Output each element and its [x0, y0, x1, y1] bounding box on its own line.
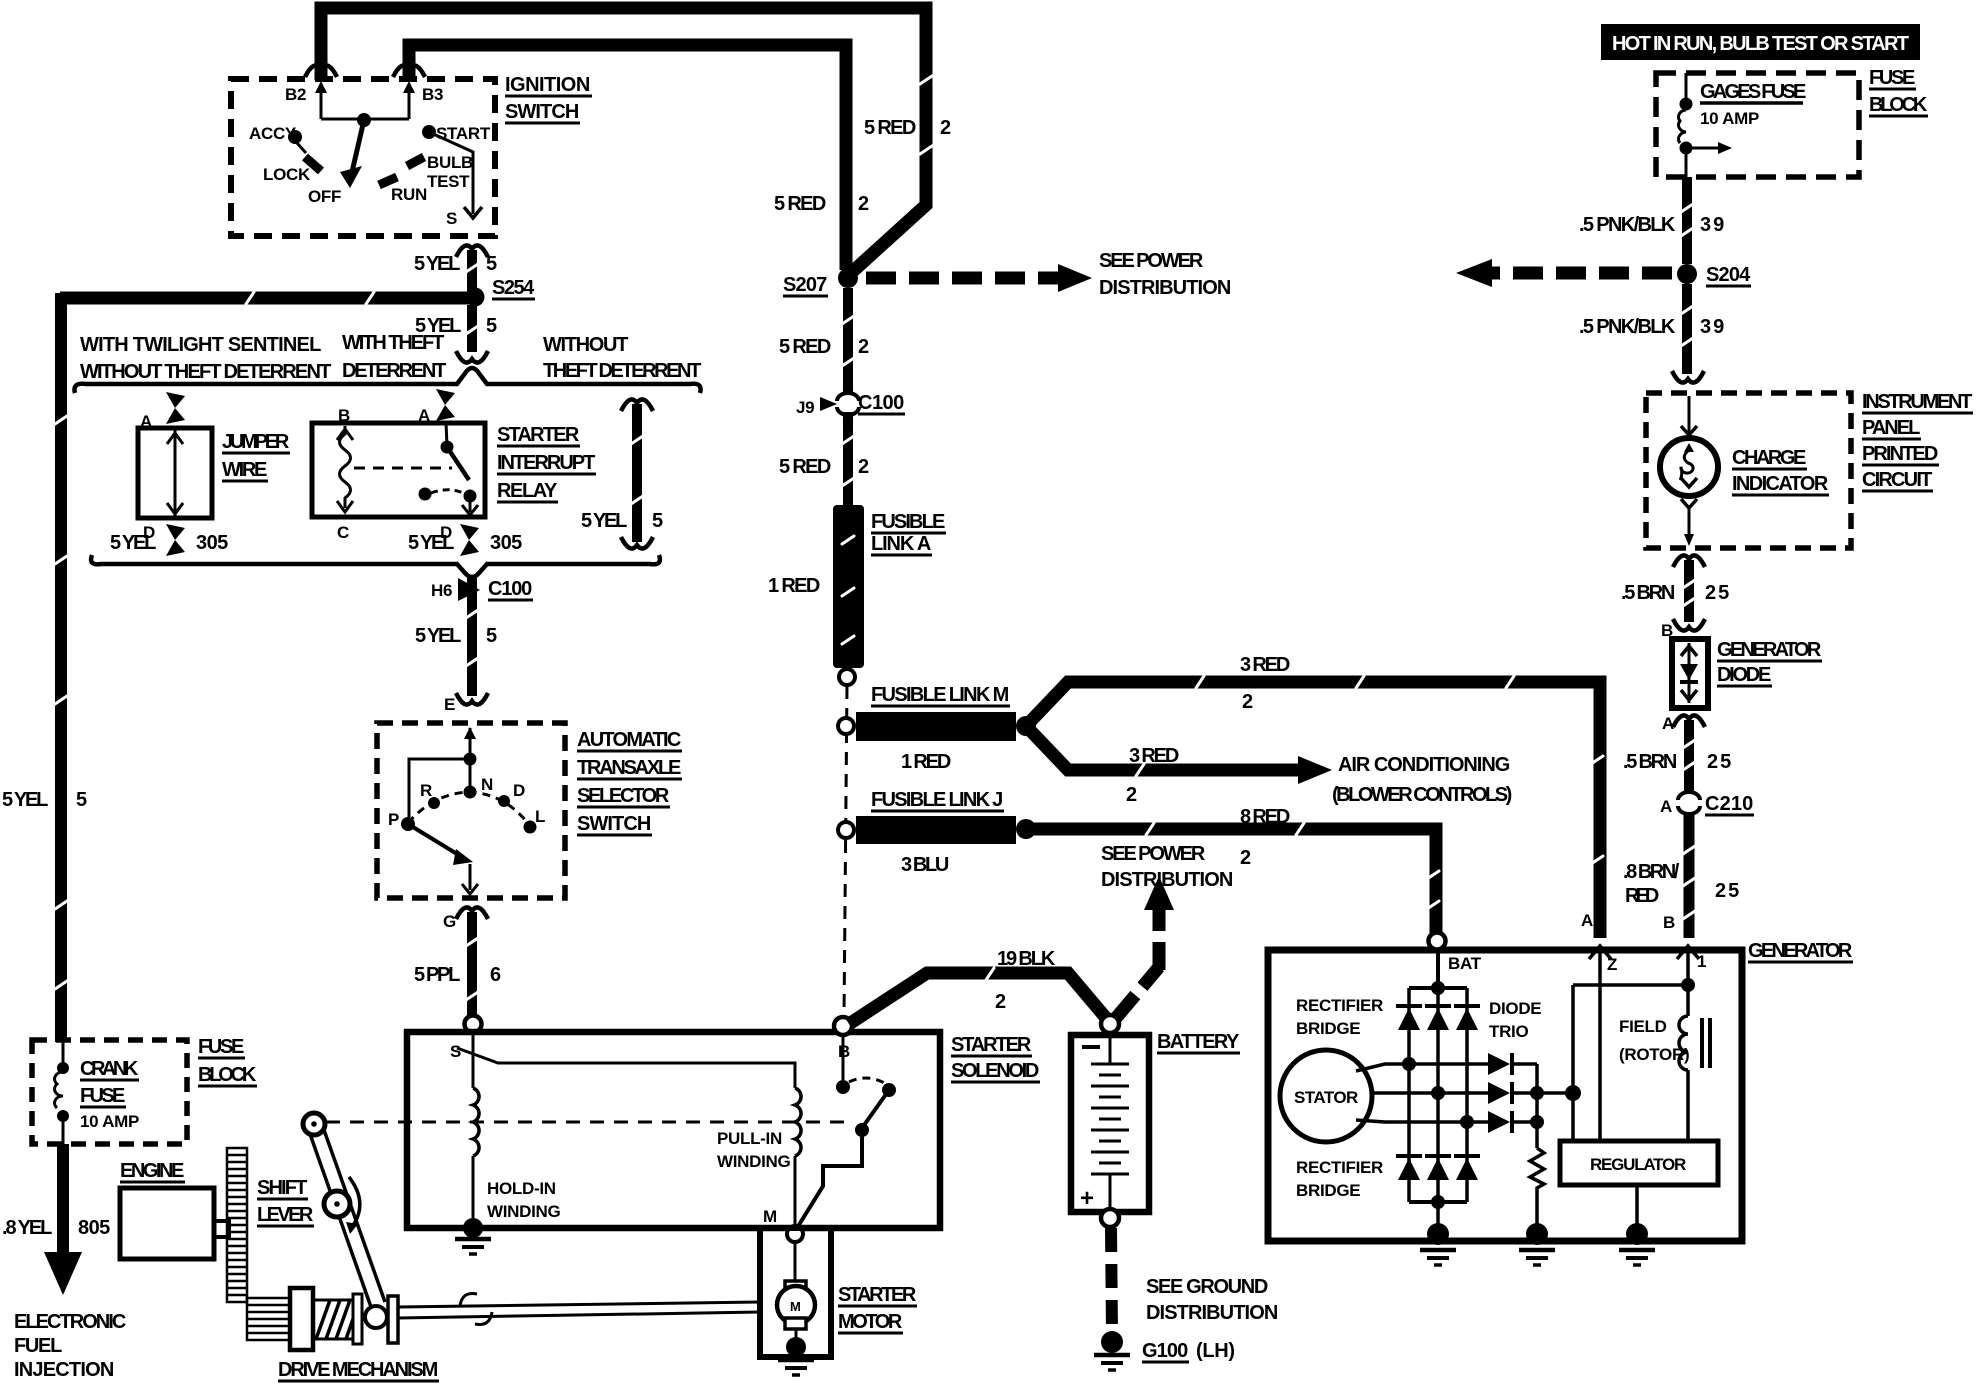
crank fuse element: [62, 1040, 65, 1064]
shift lever pivot: [324, 1191, 350, 1217]
svg-text:MOTOR: MOTOR: [838, 1311, 903, 1333]
svg-text:WINDING: WINDING: [717, 1152, 791, 1171]
wire 3 RED 2 to air conditioning: [1026, 726, 1298, 770]
wire C210 to generator (.8 BRN/RED 25): [1684, 813, 1695, 938]
svg-text:ENGINE: ENGINE: [120, 1160, 184, 1182]
Z terminal: [1589, 946, 1611, 959]
connector chevron at B2: [305, 65, 337, 77]
svg-text:BRIDGE: BRIDGE: [1296, 1019, 1360, 1038]
terminal below link A: [839, 669, 855, 685]
svg-text:REGULATOR: REGULATOR: [1590, 1155, 1686, 1174]
pivot rotation arrow: [349, 1177, 360, 1227]
svg-text:HOT IN RUN, BULB TEST OR START: HOT IN RUN, BULB TEST OR START: [1612, 33, 1909, 55]
dashed arrow left from S204: [1490, 267, 1672, 280]
svg-text:S: S: [450, 1042, 461, 1061]
drive rod to starter motor: [398, 1302, 760, 1307]
svg-text:LINK A: LINK A: [871, 533, 931, 555]
svg-text:19 BLK: 19 BLK: [997, 948, 1056, 970]
terminal S circle: [465, 1016, 482, 1033]
svg-text:BATTERY: BATTERY: [1157, 1031, 1240, 1053]
svg-text:FUSIBLE LINK M: FUSIBLE LINK M: [871, 684, 1009, 706]
svg-text:10 AMP: 10 AMP: [80, 1112, 139, 1131]
svg-text:SHIFT: SHIFT: [257, 1177, 307, 1199]
wire S254 horizontal to left edge: [60, 292, 470, 305]
svg-text:SWITCH: SWITCH: [577, 813, 651, 835]
stator: [1280, 1050, 1372, 1142]
svg-text:STARTER: STARTER: [951, 1034, 1032, 1056]
bypass wire without theft deterrent (5 YEL 5): [621, 399, 653, 411]
upper brace: [74, 368, 700, 393]
svg-text:C210: C210: [1705, 793, 1753, 815]
node S254: [466, 288, 485, 307]
wire battery to power dist arrow: [1116, 967, 1159, 1018]
svg-text:WITH THEFT: WITH THEFT: [342, 332, 444, 354]
starter motor housing: [760, 1228, 831, 1357]
svg-text:.8 YEL: .8 YEL: [2, 1217, 52, 1239]
svg-text:5 RED: 5 RED: [779, 336, 831, 358]
rotor arm node: [357, 113, 371, 127]
svg-text:DIODE: DIODE: [1489, 999, 1541, 1018]
svg-text:10 AMP: 10 AMP: [1700, 109, 1759, 128]
svg-text:C100: C100: [858, 392, 904, 414]
contact arc P R N D L: [408, 792, 530, 826]
wire 19 BLK 2 solenoid B to battery: [849, 973, 1106, 1024]
node S207: [838, 268, 858, 288]
wire B2 to top bus to S207 (5 RED 2): [321, 8, 926, 273]
svg-text:SOLENOID: SOLENOID: [951, 1060, 1039, 1082]
svg-text:G: G: [443, 912, 456, 931]
ignition switch box: [231, 79, 495, 236]
svg-text:.5 BRN: .5 BRN: [1623, 751, 1677, 773]
connector chevron at B3: [393, 65, 425, 77]
switch wiper: [408, 824, 462, 857]
hold-in winding: [472, 1035, 475, 1088]
fusible link A: [833, 505, 864, 668]
rectifier diodes top row: [1396, 1006, 1480, 1030]
fuse block box (gages): [1656, 73, 1859, 177]
svg-text:RUN: RUN: [391, 185, 427, 204]
svg-text:SELECTOR: SELECTOR: [577, 785, 670, 807]
svg-text:AIR CONDITIONING: AIR CONDITIONING: [1338, 754, 1510, 776]
svg-text:SEE GROUND: SEE GROUND: [1146, 1276, 1268, 1298]
svg-text:5 YEL: 5 YEL: [581, 510, 627, 532]
svg-text:OFF: OFF: [308, 187, 341, 206]
node in switch: [464, 753, 477, 766]
svg-text:.5 PNK/BLK: .5 PNK/BLK: [1579, 214, 1676, 236]
drive mechanism screw: [313, 1300, 353, 1339]
svg-text:5 YEL: 5 YEL: [414, 253, 460, 275]
svg-text:GENERATOR: GENERATOR: [1748, 940, 1853, 962]
svg-text:5 PPL: 5 PPL: [414, 964, 460, 986]
svg-text:2: 2: [858, 336, 869, 358]
svg-text:A: A: [1662, 714, 1674, 733]
svg-text:8 RED: 8 RED: [1240, 806, 1290, 828]
svg-text:STATOR: STATOR: [1294, 1088, 1358, 1107]
svg-text:2: 2: [858, 193, 869, 215]
rectifier verticals: [1407, 988, 1411, 1202]
wire M to motor: [794, 1242, 797, 1283]
svg-text:2: 2: [1126, 784, 1137, 806]
svg-text:S207: S207: [783, 274, 827, 296]
svg-text:SEE POWER: SEE POWER: [1099, 250, 1204, 272]
svg-text:.5 BRN: .5 BRN: [1621, 582, 1675, 604]
wire left long vertical (5 YEL 5): [55, 293, 67, 1042]
svg-text:TRANSAXLE: TRANSAXLE: [577, 757, 681, 779]
svg-text:WITHOUT THEFT DETERRENT: WITHOUT THEFT DETERRENT: [80, 361, 331, 383]
wire S254 down to brace (5 YEL 5): [467, 305, 477, 352]
svg-text:PANEL: PANEL: [1862, 417, 1920, 439]
switch entry arrow: [469, 728, 472, 758]
jumper wire internal: [174, 430, 177, 516]
svg-text:M: M: [790, 1299, 801, 1314]
drive mechanism bar: [353, 1294, 362, 1344]
svg-text:805: 805: [78, 1217, 110, 1239]
svg-text:5: 5: [486, 625, 497, 647]
wire crank fuse to EFI (.8 YEL 805): [57, 1144, 69, 1254]
svg-text:FUSIBLE LINK J: FUSIBLE LINK J: [871, 789, 1003, 811]
wire 8 RED 2 to generator BAT: [1026, 829, 1436, 933]
svg-text:5 RED: 5 RED: [864, 117, 916, 139]
svg-text:IGNITION: IGNITION: [505, 74, 590, 96]
svg-text:BAT: BAT: [1448, 954, 1482, 973]
svg-text:ELECTRONIC: ELECTRONIC: [14, 1311, 126, 1333]
starter solenoid box: [407, 1032, 940, 1228]
svg-text:STARTER: STARTER: [838, 1284, 917, 1306]
svg-text:BRIDGE: BRIDGE: [1296, 1181, 1360, 1200]
wire G to solenoid S (5 PPL 6): [467, 912, 477, 1016]
svg-text:3 RED: 3 RED: [1129, 745, 1179, 767]
svg-text:5: 5: [486, 253, 497, 275]
svg-text:5 YEL: 5 YEL: [408, 532, 454, 554]
svg-text:HOLD-IN: HOLD-IN: [487, 1179, 556, 1198]
BAT terminal: [1429, 933, 1446, 950]
svg-text:C: C: [337, 523, 349, 542]
solenoid contact: [842, 1036, 845, 1080]
pull-in winding: [795, 1088, 801, 1156]
rectifier bottom bus: [1409, 1200, 1467, 1204]
svg-text:SEE POWER: SEE POWER: [1101, 843, 1206, 865]
svg-text:5 YEL: 5 YEL: [110, 532, 156, 554]
svg-text:+: +: [1080, 1185, 1094, 1212]
svg-text:JUMPER: JUMPER: [222, 431, 290, 453]
svg-text:1 RED: 1 RED: [768, 575, 820, 597]
wire B3 to second bus down to S207 (5 RED 2): [409, 45, 846, 270]
svg-text:FUSE: FUSE: [80, 1085, 125, 1107]
svg-text:M: M: [763, 1207, 777, 1226]
svg-text:J9: J9: [796, 398, 814, 417]
svg-text:WITH TWILIGHT SENTINEL: WITH TWILIGHT SENTINEL: [80, 334, 321, 356]
wire S204 to instrument panel (.5 PNK/BLK 39): [1682, 284, 1692, 374]
rod break curl: [460, 1294, 477, 1307]
regulator: [1560, 1141, 1718, 1185]
svg-text:L: L: [535, 807, 545, 826]
svg-text:Z: Z: [1607, 955, 1617, 974]
wire START to S output: [429, 132, 473, 214]
svg-text:DISTRIBUTION: DISTRIBUTION: [1099, 277, 1231, 299]
svg-text:RELAY: RELAY: [497, 480, 558, 502]
field feed: [1571, 985, 1575, 1141]
svg-text:RED: RED: [1625, 885, 1659, 907]
shift lever top pivot: [303, 1113, 325, 1135]
wire fuse to S204 (.5 PNK/BLK 39): [1682, 177, 1692, 264]
svg-text:305: 305: [196, 532, 228, 554]
svg-text:RECTIFIER: RECTIFIER: [1296, 996, 1383, 1015]
svg-text:FUSE: FUSE: [1869, 67, 1915, 89]
svg-text:.8 BRN/: .8 BRN/: [1623, 861, 1680, 883]
svg-text:INTERRUPT: INTERRUPT: [497, 452, 595, 474]
charge indicator: [1688, 396, 1691, 438]
svg-text:FUSE: FUSE: [198, 1036, 244, 1058]
svg-text:B2: B2: [285, 85, 306, 104]
gages fuse element: [1685, 73, 1688, 100]
dashed wire down to solenoid B: [844, 686, 847, 1016]
svg-text:5 YEL: 5 YEL: [2, 789, 48, 811]
relay coil: [340, 426, 351, 508]
1 terminal: [1677, 946, 1699, 959]
generator grounds: [1436, 1202, 1440, 1228]
svg-text:5 YEL: 5 YEL: [415, 625, 461, 647]
svg-text:R: R: [420, 781, 432, 800]
svg-text:B3: B3: [422, 85, 443, 104]
svg-text:S254: S254: [492, 277, 535, 299]
plunger dashed linkage: [326, 1121, 848, 1124]
automatic transaxle selector switch box: [377, 723, 565, 898]
svg-text:A: A: [1660, 797, 1672, 816]
jumper wire box: [138, 428, 212, 518]
svg-text:3 RED: 3 RED: [1240, 654, 1290, 676]
svg-text:THEFT DETERRENT: THEFT DETERRENT: [543, 360, 701, 382]
svg-text:P: P: [388, 810, 399, 829]
svg-text:(BLOWER CONTROLS): (BLOWER CONTROLS): [1332, 784, 1512, 806]
trio output node: [1535, 1064, 1539, 1148]
wire C100 to fusible link A (5 RED 2): [843, 412, 853, 505]
relay dashed link: [354, 467, 452, 470]
svg-text:2: 2: [940, 117, 951, 139]
svg-text:5 RED: 5 RED: [774, 193, 826, 215]
starter motor ground: [786, 1337, 806, 1357]
svg-text:S204: S204: [1706, 264, 1751, 286]
svg-text:SWITCH: SWITCH: [505, 101, 579, 123]
svg-text:CHARGE: CHARGE: [1732, 447, 1806, 469]
starter interrupt relay box: [312, 423, 485, 517]
crank fuse block box: [32, 1040, 187, 1144]
svg-text:RECTIFIER: RECTIFIER: [1296, 1158, 1383, 1177]
svg-text:H6: H6: [431, 581, 452, 600]
svg-text:DRIVE MECHANISM: DRIVE MECHANISM: [278, 1359, 438, 1381]
rectifier diodes bottom row: [1396, 1156, 1480, 1180]
svg-text:E: E: [444, 695, 455, 714]
svg-text:A: A: [1581, 911, 1593, 930]
svg-text:PULL-IN: PULL-IN: [717, 1129, 782, 1148]
svg-text:CIRCUIT: CIRCUIT: [1862, 469, 1932, 491]
svg-text:1: 1: [1697, 952, 1706, 971]
svg-text:(LH): (LH): [1196, 1340, 1235, 1362]
svg-text:AUTOMATIC: AUTOMATIC: [577, 729, 681, 751]
svg-text:5: 5: [486, 315, 497, 337]
drive mechanism collar: [290, 1288, 313, 1350]
svg-text:2: 2: [1242, 691, 1253, 713]
wire S to pull-in winding: [457, 1048, 795, 1088]
wire B2-B3 jumper inside switch: [321, 118, 409, 121]
generator diode: [1672, 639, 1708, 708]
instrument panel printed circuit box: [1646, 393, 1851, 548]
drive mechanism ball: [365, 1306, 387, 1328]
svg-text:3 BLU: 3 BLU: [901, 854, 949, 876]
stator phase wires: [1356, 1064, 1488, 1071]
generator box: [1268, 950, 1742, 1241]
svg-text:2: 2: [858, 456, 869, 478]
drive pinion hatch: [247, 1298, 290, 1340]
svg-text:FUEL: FUEL: [14, 1335, 62, 1357]
svg-text:5: 5: [76, 789, 87, 811]
svg-text:BLOCK: BLOCK: [198, 1064, 257, 1086]
svg-text:305: 305: [490, 532, 522, 554]
svg-text:DETERRENT: DETERRENT: [342, 360, 446, 382]
shift lever arm: [310, 1134, 371, 1307]
svg-text:FUSIBLE: FUSIBLE: [871, 511, 945, 533]
resistor: [1530, 1148, 1544, 1228]
gear rack: [227, 1148, 247, 1302]
svg-text:INDICATOR: INDICATOR: [1732, 473, 1829, 495]
svg-text:5 RED: 5 RED: [779, 456, 831, 478]
svg-text:WINDING: WINDING: [487, 1202, 561, 1221]
svg-text:2: 2: [1240, 847, 1251, 869]
svg-text:.5 PNK/BLK: .5 PNK/BLK: [1579, 316, 1676, 338]
svg-text:DISTRIBUTION: DISTRIBUTION: [1101, 869, 1233, 891]
dashed arrow to power distribution: [866, 272, 1058, 285]
svg-text:CRANK: CRANK: [80, 1058, 139, 1080]
lower brace: [91, 555, 660, 577]
svg-text:BLOCK: BLOCK: [1869, 94, 1928, 116]
node S204: [1677, 264, 1697, 284]
wire brace to E (5 YEL 5): [467, 578, 477, 696]
svg-text:C100: C100: [488, 578, 532, 600]
svg-text:INSTRUMENT: INSTRUMENT: [1862, 391, 1972, 413]
svg-text:STARTER: STARTER: [497, 424, 580, 446]
svg-text:N: N: [481, 775, 493, 794]
wire battery to ground G100: [1111, 1228, 1112, 1332]
svg-text:PRINTED: PRINTED: [1862, 443, 1938, 465]
svg-text:WITHOUT: WITHOUT: [543, 334, 628, 356]
wire ignition to S254 (5 YEL 5): [467, 250, 477, 292]
relay contact arm: [446, 422, 447, 446]
svg-text:1 RED: 1 RED: [901, 751, 951, 773]
rectifier top bus: [1409, 986, 1467, 990]
svg-text:INJECTION: INJECTION: [14, 1359, 114, 1381]
svg-text:2: 2: [995, 991, 1006, 1013]
drive mechanism tee: [388, 1296, 398, 1343]
svg-text:GENERATOR: GENERATOR: [1717, 639, 1822, 661]
svg-text:DISTRIBUTION: DISTRIBUTION: [1146, 1302, 1278, 1324]
svg-text:BULB: BULB: [427, 153, 473, 172]
banner HOT IN RUN, BULB TEST OR START: [1601, 24, 1920, 60]
wire 3 RED 2 to generator: [1026, 682, 1600, 938]
svg-text:B: B: [1663, 913, 1675, 932]
svg-text:LOCK: LOCK: [263, 165, 311, 184]
svg-text:6: 6: [490, 964, 501, 986]
battery: [1101, 1015, 1119, 1033]
svg-text:GAGES FUSE: GAGES FUSE: [1700, 81, 1806, 103]
svg-text:TRIO: TRIO: [1489, 1022, 1528, 1041]
svg-text:FIELD: FIELD: [1619, 1017, 1667, 1036]
svg-text:DIODE: DIODE: [1717, 664, 1771, 686]
svg-text:TEST: TEST: [427, 172, 470, 191]
svg-text:G100: G100: [1142, 1340, 1188, 1362]
svg-text:5: 5: [652, 510, 663, 532]
starter motor M: [785, 1281, 806, 1292]
wire to generator diode (.5 BRN 25): [1673, 555, 1705, 567]
svg-text:S: S: [446, 209, 457, 228]
svg-text:WIRE: WIRE: [222, 459, 267, 481]
connector below ignition S: [456, 245, 488, 257]
rotor arm: [352, 120, 364, 172]
wire hatch texture: [55, 76, 1695, 1000]
svg-text:LEVER: LEVER: [257, 1204, 314, 1226]
svg-text:D: D: [513, 781, 525, 800]
wire S207 to C100 (5 RED 2): [843, 288, 853, 392]
